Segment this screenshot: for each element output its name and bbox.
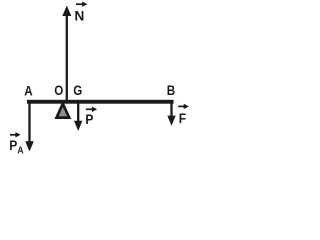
force arrow F at B	[167, 104, 175, 126]
normal force arrow N at O	[62, 6, 71, 102]
vector arrow over P	[86, 107, 97, 112]
vector arrow over PA	[10, 132, 21, 137]
vector arrow over F	[178, 104, 189, 109]
weight arrow P at G	[74, 104, 82, 132]
force arrow PA at A	[25, 103, 34, 152]
beam AB	[27, 100, 174, 104]
svg-text:P: P	[9, 137, 17, 153]
svg-text:F: F	[179, 110, 186, 126]
fulcrum at O	[57, 104, 70, 118]
svg-text:N: N	[75, 8, 85, 23]
svg-text:O: O	[54, 83, 63, 98]
svg-text:P: P	[85, 111, 93, 127]
vector arrow over N	[76, 2, 88, 7]
svg-text:A: A	[17, 145, 23, 156]
svg-text:B: B	[167, 83, 175, 98]
svg-text:G: G	[73, 83, 82, 98]
svg-text:A: A	[24, 84, 32, 99]
label PA	[9, 137, 24, 156]
